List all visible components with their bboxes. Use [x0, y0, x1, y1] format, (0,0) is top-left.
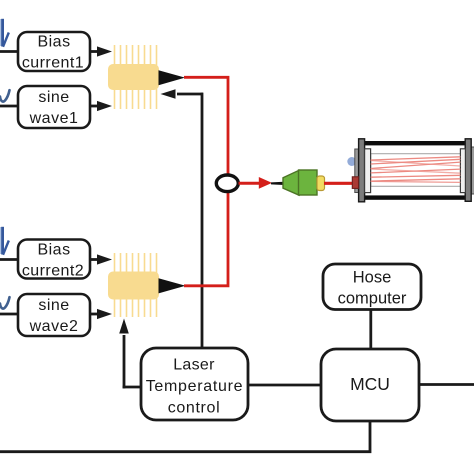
gas cell right flange: [465, 139, 471, 202]
fiber collimator to cell: [324, 182, 353, 185]
wire sine2 input: [0, 313, 19, 316]
waveform icon sine 2: [0, 297, 10, 308]
arrow temperature to LD2: [119, 319, 129, 389]
wire MCU bottom feedback: [0, 421, 370, 452]
fiber from LD1: [184, 77, 228, 176]
gas cell left mirror: [365, 149, 371, 193]
waveform icon sine 1: [0, 90, 10, 101]
svg-text:computer: computer: [338, 290, 407, 308]
box Bias current2: [18, 240, 90, 280]
collimator cone: [283, 170, 299, 195]
svg-text:Temperature: Temperature: [146, 378, 244, 395]
wire bias1 input: [0, 50, 19, 53]
fiber from LD2: [184, 191, 228, 286]
collimator body: [299, 170, 318, 195]
laser diode LD2 package: [108, 253, 159, 317]
box Hose computer: [323, 264, 421, 310]
svg-text:Bias: Bias: [37, 34, 70, 51]
svg-text:current1: current1: [22, 55, 84, 72]
svg-text:control: control: [168, 400, 221, 417]
laser diode LD1 package: [108, 45, 159, 109]
beam path multipass: [371, 157, 461, 183]
wire sine1 input: [0, 105, 19, 108]
arrow bias2 to LD2: [90, 254, 112, 264]
wire MCU output right: [419, 383, 474, 386]
box sine wave1: [18, 86, 90, 128]
arrow sine1 to LD1: [90, 101, 112, 111]
svg-text:Bias: Bias: [37, 242, 70, 259]
wire LD2 temp control horizontal: [123, 386, 142, 389]
gas cell left flange: [359, 139, 365, 202]
laser LD2 emission triangle: [159, 278, 186, 293]
arrow bias1 to LD1: [90, 46, 112, 56]
gas cell left bracket tab: [355, 149, 359, 193]
fiber tip into collimator: [271, 182, 284, 185]
gas cell right bracket tab: [471, 147, 474, 194]
waveform icon ramp 2: [0, 227, 9, 255]
box sine wave2: [18, 294, 90, 336]
wire bias2 input: [0, 258, 19, 261]
svg-text:wave2: wave2: [29, 318, 79, 335]
arrow temperature to LD1: [161, 89, 204, 99]
fiber combiner coupler: [216, 175, 238, 192]
gas cell inlet port: [347, 157, 356, 166]
wire LD1 temp control vertical: [201, 93, 204, 348]
svg-text:MCU: MCU: [350, 374, 390, 394]
svg-text:current2: current2: [22, 263, 84, 280]
gas cell tube outline: [371, 154, 461, 187]
gas cell top rod: [362, 141, 468, 145]
svg-text:sine: sine: [38, 297, 69, 314]
box Bias current1: [18, 32, 90, 72]
gas cell bottom rod: [362, 195, 468, 199]
gas cell right mirror: [460, 149, 465, 193]
svg-text:wave1: wave1: [29, 110, 79, 127]
wire hose computer to MCU: [369, 310, 372, 350]
svg-text:sine: sine: [38, 89, 69, 106]
svg-text:Hose: Hose: [353, 269, 392, 287]
collimator ferrule: [317, 176, 325, 191]
waveform icon ramp 1: [0, 19, 9, 47]
fiber entry port: [352, 177, 358, 189]
fiber arrow: [259, 177, 272, 189]
wire LTC to MCU: [248, 384, 321, 387]
fiber combiner output: [239, 182, 262, 185]
box Laser Temperature control: [141, 348, 248, 420]
arrow sine2 to LD2: [90, 309, 112, 319]
svg-text:Laser: Laser: [173, 357, 215, 374]
laser LD1 emission triangle: [159, 70, 186, 85]
box MCU: [321, 349, 419, 421]
